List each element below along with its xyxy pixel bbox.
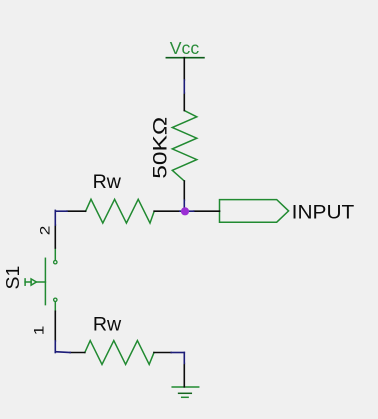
svg-text:2: 2 xyxy=(37,226,52,236)
svg-text:Rw: Rw xyxy=(93,313,122,335)
svg-text:Vcc: Vcc xyxy=(170,38,200,58)
svg-text:Rw: Rw xyxy=(93,171,122,193)
svg-text:50KΩ: 50KΩ xyxy=(149,117,171,179)
svg-text:S1: S1 xyxy=(2,266,23,290)
svg-text:1: 1 xyxy=(31,326,46,336)
svg-text:INPUT: INPUT xyxy=(292,202,355,224)
